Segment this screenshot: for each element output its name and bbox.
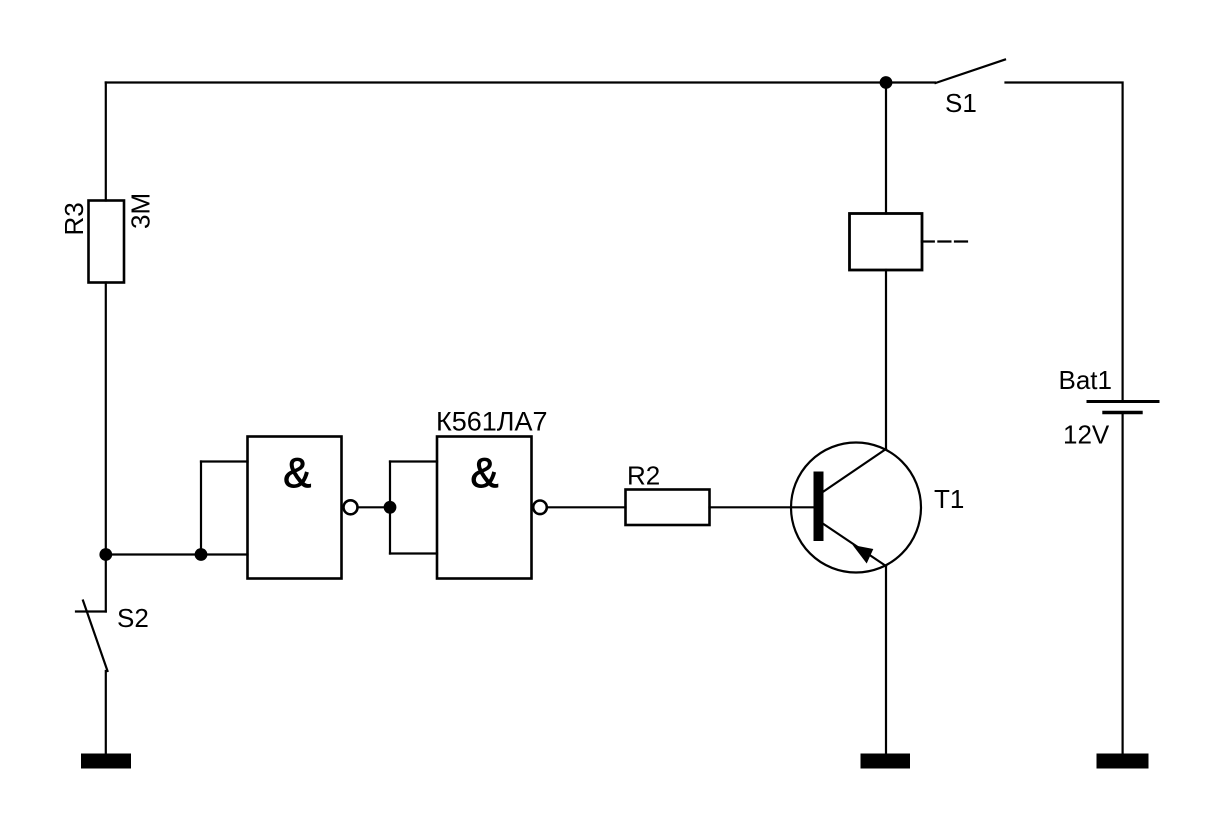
battery Bat1 short plate — [1104, 411, 1141, 414]
wire input bus to gate 1 lower input — [106, 553, 248, 555]
resistor R3 body — [89, 201, 125, 283]
wire R3 bottom down to S2 — [105, 283, 107, 612]
wire collector up to relay — [885, 270, 887, 449]
node B junction dot (input bus tap) — [99, 548, 112, 561]
wire emitter down to middle ground — [885, 566, 887, 754]
switch S1 blade — [936, 60, 1006, 84]
wire R2 to transistor base — [710, 506, 815, 508]
switch S2 fixed contact tick — [76, 610, 106, 612]
svg-text:3M: 3M — [126, 193, 156, 229]
switch S2 blade — [83, 601, 108, 672]
wire S2 to left ground — [105, 671, 107, 754]
relay actuator dashed link — [922, 240, 971, 242]
wire node A to switch S1 — [886, 81, 935, 83]
wire left vertical top to R3 — [105, 83, 107, 201]
resistor R2 body — [626, 490, 710, 526]
transistor T1 base bar — [814, 472, 824, 542]
svg-text:R2: R2 — [627, 461, 660, 491]
svg-text:&: & — [470, 449, 498, 496]
svg-text:R3: R3 — [59, 202, 89, 235]
wire S1 to top-right corner and down to battery — [1006, 83, 1123, 401]
relay K1 coil body — [850, 214, 923, 271]
NAND gate U1a body — [248, 437, 342, 579]
wire relay top to node A — [885, 83, 887, 214]
transistor T1 emitter stroke — [824, 524, 887, 566]
wire U1a output to node D — [358, 506, 391, 508]
wire into gate 1 upper input — [201, 460, 248, 462]
ground middle bar — [861, 754, 911, 769]
wire into gate 2 lower input — [390, 552, 437, 554]
wire node D vertical tie — [389, 462, 391, 554]
wire battery to right ground — [1121, 414, 1123, 754]
wire node C up to gate 1 upper input — [200, 462, 202, 555]
svg-text:К561ЛА7: К561ЛА7 — [436, 407, 548, 437]
wire top bus from R3 top to node A — [106, 81, 886, 83]
NAND gate U1b body — [437, 437, 532, 579]
wire into gate 2 upper input — [390, 460, 437, 462]
svg-text:T1: T1 — [934, 484, 964, 514]
node C junction dot — [195, 548, 208, 561]
node D junction dot — [384, 501, 397, 514]
ground left bar — [81, 754, 131, 769]
svg-text:S2: S2 — [117, 603, 149, 633]
U1b output inversion bubble — [533, 501, 547, 515]
ground right bar — [1097, 754, 1149, 769]
transistor T1 emitter arrowhead — [853, 545, 874, 564]
svg-text:Bat1: Bat1 — [1059, 365, 1113, 395]
node A junction dot — [880, 76, 893, 89]
svg-text:&: & — [283, 449, 311, 496]
transistor T1 circle — [791, 443, 921, 573]
svg-text:S1: S1 — [945, 88, 977, 118]
wire U1b output to R2 — [547, 506, 626, 508]
battery Bat1 long plate — [1088, 400, 1158, 403]
svg-text:12V: 12V — [1063, 420, 1110, 450]
U1a output inversion bubble — [344, 500, 358, 514]
transistor T1 collector stroke — [824, 449, 887, 492]
